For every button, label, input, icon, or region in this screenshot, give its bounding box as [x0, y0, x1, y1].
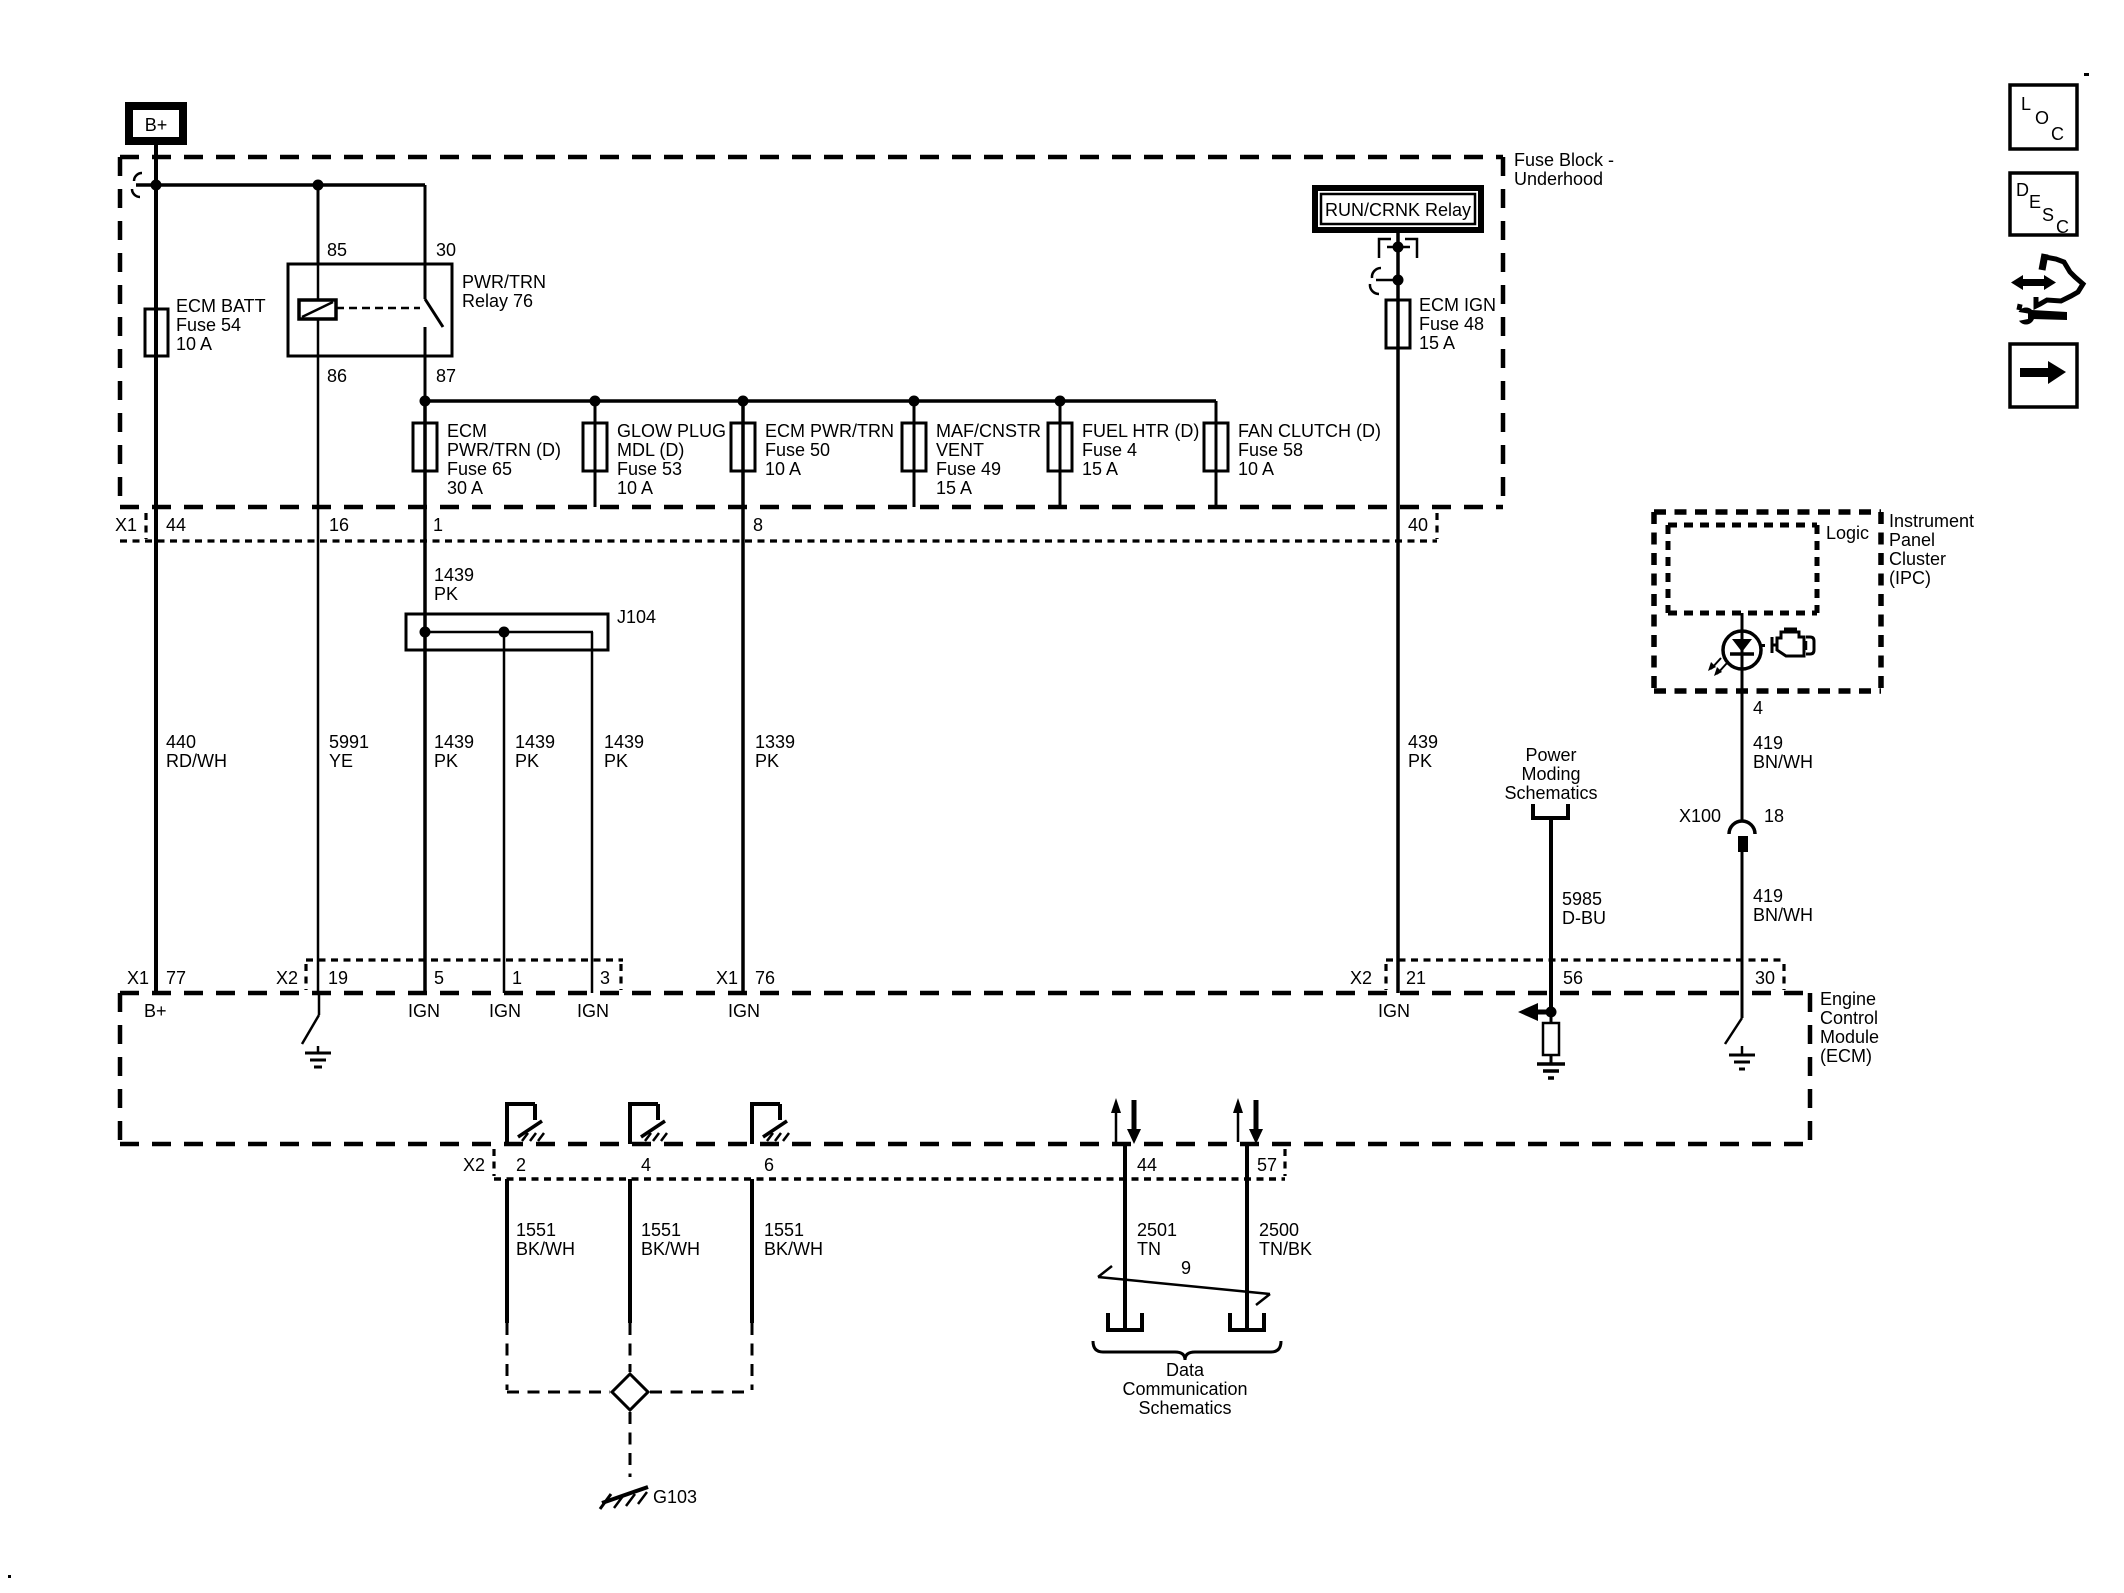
svg-text:1439: 1439	[434, 565, 474, 585]
svg-text:5991: 5991	[329, 732, 369, 752]
svg-text:44: 44	[1137, 1155, 1157, 1175]
svg-text:Fuse 49: Fuse 49	[936, 459, 1001, 479]
svg-text:Logic: Logic	[1826, 523, 1869, 543]
svg-text:9: 9	[1181, 1258, 1191, 1278]
svg-text:1439: 1439	[604, 732, 644, 752]
svg-text:3: 3	[600, 968, 610, 988]
svg-text:J104: J104	[617, 607, 656, 627]
svg-text:77: 77	[166, 968, 186, 988]
svg-text:1339: 1339	[755, 732, 795, 752]
svg-text:L: L	[2021, 94, 2031, 114]
svg-text:C: C	[2056, 217, 2069, 237]
svg-text:X1: X1	[127, 968, 149, 988]
svg-text:VENT: VENT	[936, 440, 984, 460]
svg-text:S: S	[2042, 205, 2054, 225]
svg-text:Data: Data	[1166, 1360, 1205, 1380]
svg-text:B+: B+	[144, 1001, 167, 1021]
svg-text:FAN CLUTCH (D): FAN CLUTCH (D)	[1238, 421, 1381, 441]
svg-text:Fuse Block -: Fuse Block -	[1514, 150, 1614, 170]
svg-text:10 A: 10 A	[1238, 459, 1274, 479]
svg-text:PK: PK	[434, 751, 458, 771]
svg-text:TN: TN	[1137, 1239, 1161, 1259]
svg-text:YE: YE	[329, 751, 353, 771]
svg-text:10 A: 10 A	[176, 334, 212, 354]
svg-text:439: 439	[1408, 732, 1438, 752]
svg-text:PWR/TRN (D): PWR/TRN (D)	[447, 440, 561, 460]
svg-text:ECM IGN: ECM IGN	[1419, 295, 1496, 315]
svg-text:BN/WH: BN/WH	[1753, 752, 1813, 772]
svg-text:Communication: Communication	[1122, 1379, 1247, 1399]
svg-text:IGN: IGN	[1378, 1001, 1410, 1021]
svg-text:16: 16	[329, 515, 349, 535]
svg-text:X2: X2	[463, 1155, 485, 1175]
svg-text:Instrument: Instrument	[1889, 511, 1974, 531]
svg-text:56: 56	[1563, 968, 1583, 988]
svg-text:4: 4	[1753, 698, 1763, 718]
svg-text:MDL (D): MDL (D)	[617, 440, 684, 460]
svg-text:86: 86	[327, 366, 347, 386]
svg-text:85: 85	[327, 240, 347, 260]
svg-text:5: 5	[434, 968, 444, 988]
svg-text:RD/WH: RD/WH	[166, 751, 227, 771]
svg-text:5985: 5985	[1562, 889, 1602, 909]
svg-text:FUEL HTR (D): FUEL HTR (D)	[1082, 421, 1199, 441]
svg-text:Fuse 48: Fuse 48	[1419, 314, 1484, 334]
svg-text:Engine: Engine	[1820, 989, 1876, 1009]
svg-text:Module: Module	[1820, 1027, 1879, 1047]
svg-text:X1: X1	[115, 515, 137, 535]
svg-text:Control: Control	[1820, 1008, 1878, 1028]
svg-text:E: E	[2029, 192, 2041, 212]
svg-text:Cluster: Cluster	[1889, 549, 1946, 569]
svg-text:1439: 1439	[434, 732, 474, 752]
svg-text:PK: PK	[1408, 751, 1432, 771]
svg-text:RUN/CRNK Relay: RUN/CRNK Relay	[1325, 200, 1471, 220]
svg-text:2500: 2500	[1259, 1220, 1299, 1240]
svg-text:Fuse 4: Fuse 4	[1082, 440, 1137, 460]
svg-text:BN/WH: BN/WH	[1753, 905, 1813, 925]
svg-text:30 A: 30 A	[447, 478, 483, 498]
svg-text:IGN: IGN	[408, 1001, 440, 1021]
svg-text:(IPC): (IPC)	[1889, 568, 1931, 588]
svg-text:419: 419	[1753, 886, 1783, 906]
svg-text:8: 8	[753, 515, 763, 535]
svg-text:PK: PK	[515, 751, 539, 771]
svg-text:1551: 1551	[764, 1220, 804, 1240]
svg-text:44: 44	[166, 515, 186, 535]
svg-text:Schematics: Schematics	[1138, 1398, 1231, 1418]
svg-text:Fuse 54: Fuse 54	[176, 315, 241, 335]
svg-text:10 A: 10 A	[765, 459, 801, 479]
svg-text:440: 440	[166, 732, 196, 752]
svg-text:TN/BK: TN/BK	[1259, 1239, 1312, 1259]
svg-text:1551: 1551	[516, 1220, 556, 1240]
svg-text:Relay 76: Relay 76	[462, 291, 533, 311]
svg-text:87: 87	[436, 366, 456, 386]
svg-text:BK/WH: BK/WH	[516, 1239, 575, 1259]
svg-text:D-BU: D-BU	[1562, 908, 1606, 928]
svg-text:18: 18	[1764, 806, 1784, 826]
svg-text:Schematics: Schematics	[1504, 783, 1597, 803]
svg-text:O: O	[2035, 108, 2049, 128]
svg-text:1439: 1439	[515, 732, 555, 752]
svg-text:IGN: IGN	[577, 1001, 609, 1021]
svg-text:10 A: 10 A	[617, 478, 653, 498]
svg-text:19: 19	[328, 968, 348, 988]
svg-text:21: 21	[1406, 968, 1426, 988]
svg-text:Fuse 53: Fuse 53	[617, 459, 682, 479]
svg-text:BK/WH: BK/WH	[764, 1239, 823, 1259]
svg-text:X2: X2	[1350, 968, 1372, 988]
svg-text:76: 76	[755, 968, 775, 988]
svg-text:1551: 1551	[641, 1220, 681, 1240]
svg-text:X100: X100	[1679, 806, 1721, 826]
svg-text:ECM: ECM	[447, 421, 487, 441]
svg-text:PK: PK	[755, 751, 779, 771]
svg-text:PWR/TRN: PWR/TRN	[462, 272, 546, 292]
svg-text:Power: Power	[1525, 745, 1576, 765]
svg-text:40: 40	[1408, 515, 1428, 535]
svg-text:2501: 2501	[1137, 1220, 1177, 1240]
svg-text:ECM BATT: ECM BATT	[176, 296, 266, 316]
svg-text:15 A: 15 A	[1082, 459, 1118, 479]
svg-text:Underhood: Underhood	[1514, 169, 1603, 189]
svg-text:X1: X1	[716, 968, 738, 988]
svg-text:D: D	[2016, 180, 2029, 200]
svg-text:PK: PK	[434, 584, 458, 604]
svg-text:57: 57	[1257, 1155, 1277, 1175]
svg-text:PK: PK	[604, 751, 628, 771]
svg-text:Panel: Panel	[1889, 530, 1935, 550]
svg-text:X2: X2	[276, 968, 298, 988]
svg-text:(ECM): (ECM)	[1820, 1046, 1872, 1066]
svg-text:ECM PWR/TRN: ECM PWR/TRN	[765, 421, 894, 441]
svg-text:6: 6	[764, 1155, 774, 1175]
svg-text:Fuse 50: Fuse 50	[765, 440, 830, 460]
svg-text:GLOW PLUG: GLOW PLUG	[617, 421, 726, 441]
svg-text:MAF/CNSTR: MAF/CNSTR	[936, 421, 1041, 441]
svg-text:Fuse 58: Fuse 58	[1238, 440, 1303, 460]
svg-text:15 A: 15 A	[1419, 333, 1455, 353]
svg-text:4: 4	[641, 1155, 651, 1175]
svg-text:G103: G103	[653, 1487, 697, 1507]
svg-text:Fuse 65: Fuse 65	[447, 459, 512, 479]
svg-text:1: 1	[512, 968, 522, 988]
svg-text:419: 419	[1753, 733, 1783, 753]
svg-text:IGN: IGN	[728, 1001, 760, 1021]
svg-text:C: C	[2051, 124, 2064, 144]
svg-text:BK/WH: BK/WH	[641, 1239, 700, 1259]
svg-text:15 A: 15 A	[936, 478, 972, 498]
svg-text:Moding: Moding	[1521, 764, 1580, 784]
svg-text:30: 30	[1755, 968, 1775, 988]
svg-text:2: 2	[516, 1155, 526, 1175]
svg-text:1: 1	[433, 515, 443, 535]
svg-text:IGN: IGN	[489, 1001, 521, 1021]
svg-text:30: 30	[436, 240, 456, 260]
svg-text:B+: B+	[145, 115, 168, 135]
